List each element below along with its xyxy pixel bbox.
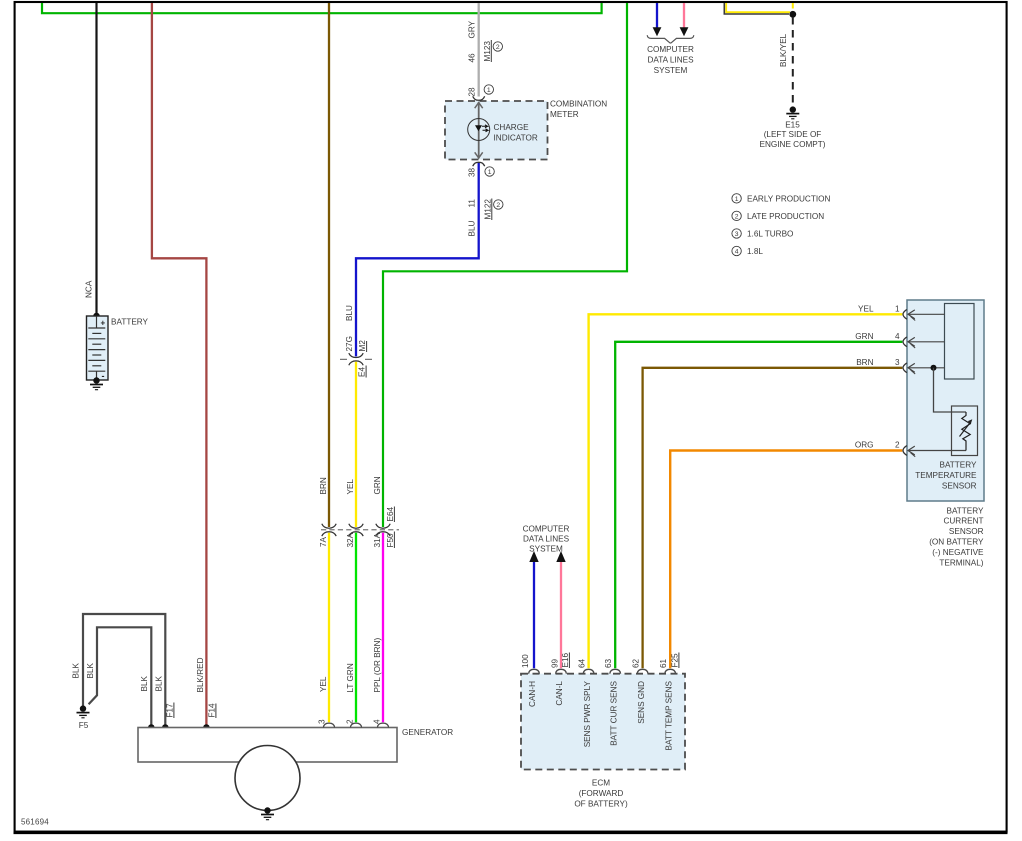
svg-text:1: 1 — [488, 169, 492, 176]
svg-text:TERMINAL): TERMINAL) — [939, 558, 983, 567]
svg-text:2: 2 — [496, 44, 500, 51]
svg-text:561694: 561694 — [21, 818, 49, 827]
svg-text:61: 61 — [659, 658, 668, 668]
svg-text:BLK: BLK — [86, 662, 95, 678]
svg-text:BATTERY: BATTERY — [111, 318, 149, 327]
ground F5 — [77, 705, 90, 717]
svg-text:BLK/RED: BLK/RED — [196, 657, 205, 692]
svg-text:BLU: BLU — [467, 220, 476, 236]
junction F17b — [162, 724, 169, 731]
svg-text:BLK/YEL: BLK/YEL — [779, 33, 788, 67]
svg-text:LATE PRODUCTION: LATE PRODUCTION — [747, 212, 824, 221]
svg-text:38: 38 — [467, 167, 476, 177]
svg-text:M123: M123 — [483, 41, 492, 62]
svg-text:EARLY PRODUCTION: EARLY PRODUCTION — [747, 195, 830, 204]
svg-text:27G: 27G — [345, 336, 354, 351]
svg-text:11: 11 — [467, 199, 476, 208]
wire BLK/YEL dashed to E15 — [792, 17, 794, 107]
svg-text:1: 1 — [487, 87, 491, 94]
generator rotor circle — [235, 746, 300, 811]
svg-text:99: 99 — [550, 658, 559, 668]
svg-text:100: 100 — [521, 654, 530, 668]
svg-text:SENS GND: SENS GND — [637, 681, 646, 724]
svg-text:F5: F5 — [79, 721, 89, 730]
svg-text:BLK: BLK — [155, 675, 164, 691]
sensor pin3 internal arrow — [908, 363, 945, 374]
svg-text:GRN: GRN — [373, 476, 382, 494]
charge indicator internal wire — [475, 102, 483, 159]
wire BRN vertical to connector 7A — [328, 3, 330, 527]
ECM pin bump CAN-H — [529, 669, 540, 673]
wire BLU CAN-H arrow (bottom) — [533, 560, 535, 668]
svg-text:E64: E64 — [386, 506, 395, 521]
sensor pin2 internal arrow — [908, 446, 966, 457]
meter bottom connector — [473, 162, 485, 166]
svg-text:F50: F50 — [386, 533, 395, 548]
svg-text:COMPUTER: COMPUTER — [523, 524, 570, 533]
combination meter box — [445, 101, 548, 160]
charge indicator LED — [468, 119, 490, 141]
svg-text:64: 64 — [577, 658, 586, 668]
E64 underline — [393, 507, 395, 523]
svg-text:(ON BATTERY: (ON BATTERY — [929, 538, 984, 547]
ECM box — [521, 674, 685, 770]
svg-text:28: 28 — [467, 87, 476, 97]
connector 31A lower — [376, 532, 390, 536]
svg-text:2: 2 — [895, 441, 900, 450]
svg-text:32A: 32A — [346, 532, 355, 547]
svg-text:LT GRN: LT GRN — [346, 663, 355, 692]
sensor pin4 internal arrow — [908, 337, 945, 348]
svg-text:BRN: BRN — [319, 477, 328, 494]
wire BLU computer data lines arrow (top) — [656, 3, 658, 29]
svg-text:COMBINATION: COMBINATION — [550, 100, 607, 109]
wire black to battery — [95, 3, 97, 316]
svg-text:62: 62 — [631, 658, 640, 668]
svg-text:63: 63 — [604, 658, 613, 668]
svg-text:2: 2 — [346, 719, 355, 724]
M122 underline — [491, 199, 493, 221]
svg-text:3: 3 — [317, 719, 326, 724]
note ref 2 at M122 — [494, 200, 503, 209]
wire PNK CAN-L arrow (bottom) — [560, 560, 562, 668]
svg-text:BATT TEMP SENS: BATT TEMP SENS — [664, 680, 673, 750]
F14 underline — [215, 704, 217, 719]
svg-text:INDICATOR: INDICATOR — [494, 134, 538, 143]
M123 underline — [490, 40, 492, 62]
note ref 1 at pin38 — [485, 167, 494, 176]
connector E4 lower — [349, 361, 363, 365]
connector M2/E4 dash right — [365, 358, 372, 360]
svg-text:E4: E4 — [358, 367, 367, 377]
svg-text:BATTERY: BATTERY — [939, 461, 977, 470]
wire LT GRN to generator pin 2 — [355, 533, 357, 723]
brace under top arrows — [647, 35, 694, 43]
svg-text:1.8L: 1.8L — [747, 247, 763, 256]
svg-text:SENSOR: SENSOR — [942, 482, 977, 491]
svg-text:BRN: BRN — [856, 358, 873, 367]
meter top connector — [473, 96, 485, 100]
junction BLK/YEL — [789, 11, 796, 18]
generator pin4 bump — [377, 723, 388, 727]
battery current sensor box — [907, 300, 984, 501]
connector 7A upper — [322, 524, 336, 528]
svg-text:NCA: NCA — [85, 280, 94, 298]
svg-text:2: 2 — [496, 202, 500, 209]
svg-text:BLU: BLU — [345, 305, 354, 321]
svg-text:E16: E16 — [561, 652, 570, 667]
svg-text:CAN-L: CAN-L — [555, 681, 564, 706]
M2 underline — [366, 341, 368, 352]
E16 underline — [568, 653, 570, 669]
svg-text:F25: F25 — [670, 653, 679, 668]
svg-text:+: + — [101, 319, 106, 328]
svg-text:1.6L TURBO: 1.6L TURBO — [747, 230, 793, 239]
svg-text:YEL: YEL — [346, 479, 355, 495]
svg-text:COMPUTER: COMPUTER — [647, 45, 694, 54]
note 1 circle — [732, 194, 741, 203]
svg-text:1: 1 — [735, 196, 739, 203]
svg-text:F17: F17 — [165, 703, 174, 718]
svg-text:46: 46 — [467, 53, 476, 63]
svg-text:TEMPERATURE: TEMPERATURE — [915, 471, 977, 480]
ground E15 — [786, 106, 799, 118]
svg-text:CURRENT: CURRENT — [943, 517, 983, 526]
svg-text:GRN: GRN — [855, 332, 873, 341]
ECM pin bump BATT TEMP SENS — [665, 669, 676, 673]
sensor pin4 cup — [903, 337, 907, 347]
svg-text:CHARGE: CHARGE — [494, 123, 530, 132]
wire internal to thermistor — [934, 368, 967, 412]
svg-text:2: 2 — [735, 213, 739, 220]
svg-text:31A: 31A — [373, 532, 382, 547]
note 2 circle — [732, 211, 741, 220]
sensor pin3 cup — [903, 363, 907, 373]
svg-text:7A: 7A — [319, 536, 328, 547]
ECM pin bump SENS GND — [637, 669, 648, 673]
note 4 circle — [732, 246, 741, 255]
ECM pin bump SENS PWR SPLY — [583, 669, 594, 673]
wire YEL ECM to battery current sensor pin1 — [589, 314, 903, 668]
sensor inner connector rect — [945, 304, 975, 380]
svg-text:M2: M2 — [358, 340, 367, 352]
connector M2 upper — [349, 353, 363, 357]
svg-text:YEL: YEL — [319, 676, 328, 692]
svg-text:BATT CUR SENS: BATT CUR SENS — [609, 680, 618, 745]
sensor pin1 internal arrow — [908, 310, 945, 321]
F25 underline — [678, 653, 680, 669]
junction sensor pin3 — [931, 365, 937, 371]
wire PPL to generator pin 4 — [382, 533, 384, 723]
sensor pin1 cup — [903, 309, 907, 319]
svg-text:OF BATTERY): OF BATTERY) — [574, 799, 628, 808]
svg-text:M122: M122 — [483, 199, 492, 220]
svg-text:3: 3 — [735, 231, 739, 238]
generator box — [138, 728, 397, 763]
svg-text:BATTERY: BATTERY — [946, 506, 984, 515]
wire GRY to combination meter — [478, 3, 480, 97]
svg-text:METER: METER — [550, 110, 579, 119]
note ref 1 at pin28 — [484, 85, 493, 94]
wire BLK outer loop F5 — [83, 614, 165, 728]
wire BLK/YEL to ground E15 — [726, 3, 790, 12]
wire PNK computer data lines arrow (top) — [683, 3, 685, 29]
svg-text:SYSTEM: SYSTEM — [529, 544, 563, 553]
svg-text:GRY: GRY — [467, 20, 476, 38]
F50 underline — [393, 532, 395, 549]
wire BLU from meter to connector M2 — [356, 163, 479, 357]
connector 32A upper — [349, 524, 363, 528]
svg-text:F14: F14 — [207, 703, 216, 718]
svg-text:YEL: YEL — [858, 304, 874, 313]
wire BRN ECM to sensor pin3 — [643, 368, 903, 669]
svg-text:4: 4 — [735, 248, 739, 255]
F17 underline — [173, 703, 175, 719]
svg-text:GENERATOR: GENERATOR — [402, 728, 453, 737]
svg-text:DATA LINES: DATA LINES — [523, 534, 570, 543]
battery — [87, 316, 109, 381]
junction F17a — [148, 724, 155, 731]
svg-text:(LEFT SIDE OF: (LEFT SIDE OF — [764, 130, 822, 139]
wire ORG ECM to sensor pin2 — [670, 451, 902, 669]
sensor pin2 cup — [903, 446, 907, 456]
wire YEL between E4 and 32A connectors — [355, 362, 357, 527]
ECM pin bump BATT CUR SENS — [610, 669, 621, 673]
E4 underline — [365, 366, 367, 378]
svg-text:4: 4 — [895, 332, 900, 341]
junction battery top — [93, 313, 100, 320]
svg-text:CAN-H: CAN-H — [528, 681, 537, 707]
wire GRN from top to connector E64 — [383, 3, 627, 527]
connector row 7A/32A/31A dashes — [321, 529, 399, 531]
connector 32A lower — [349, 532, 363, 536]
svg-text:E15: E15 — [785, 121, 800, 130]
svg-text:(-) NEGATIVE: (-) NEGATIVE — [932, 548, 984, 557]
svg-text:4: 4 — [372, 719, 381, 724]
note ref 2 at M123 — [493, 42, 502, 51]
wire YEL to generator pin 3 — [328, 533, 330, 723]
svg-text:BLK: BLK — [72, 662, 81, 678]
junction F14 — [203, 724, 210, 731]
svg-text:SENS PWR SPLY: SENS PWR SPLY — [583, 680, 592, 747]
svg-text:BLK: BLK — [140, 675, 149, 691]
svg-text:ENGINE COMPT): ENGINE COMPT) — [760, 140, 826, 149]
connector 7A lower — [322, 532, 336, 536]
connector M2/E4 dash left — [340, 358, 347, 360]
wire green loop top-left (GRN) — [42, 3, 602, 13]
battery temperature sensor thermistor — [952, 406, 978, 456]
generator pin3 bump — [323, 723, 334, 727]
note 3 circle — [732, 229, 741, 238]
svg-text:SYSTEM: SYSTEM — [654, 66, 688, 75]
svg-text:3: 3 — [895, 358, 900, 367]
svg-text:ORG: ORG — [855, 441, 874, 450]
svg-text:(FORWARD: (FORWARD — [579, 789, 624, 798]
ECM pin bump CAN-L — [556, 669, 567, 673]
ground below battery — [90, 377, 103, 389]
svg-text:DATA LINES: DATA LINES — [647, 55, 694, 64]
wire BLK inner loop F5 — [89, 627, 152, 727]
svg-text:ECM: ECM — [592, 778, 610, 787]
connector 31A upper — [376, 524, 390, 528]
wire BLK/RED to generator F14 — [152, 3, 207, 728]
svg-text:SENSOR: SENSOR — [949, 527, 984, 536]
generator pin2 bump — [350, 723, 361, 727]
svg-text:PPL (OR BRN): PPL (OR BRN) — [373, 637, 382, 692]
wire GRN ECM to sensor pin4 — [615, 342, 902, 669]
svg-text:-: - — [102, 371, 105, 381]
svg-text:1: 1 — [895, 304, 900, 313]
ground generator — [261, 807, 274, 819]
